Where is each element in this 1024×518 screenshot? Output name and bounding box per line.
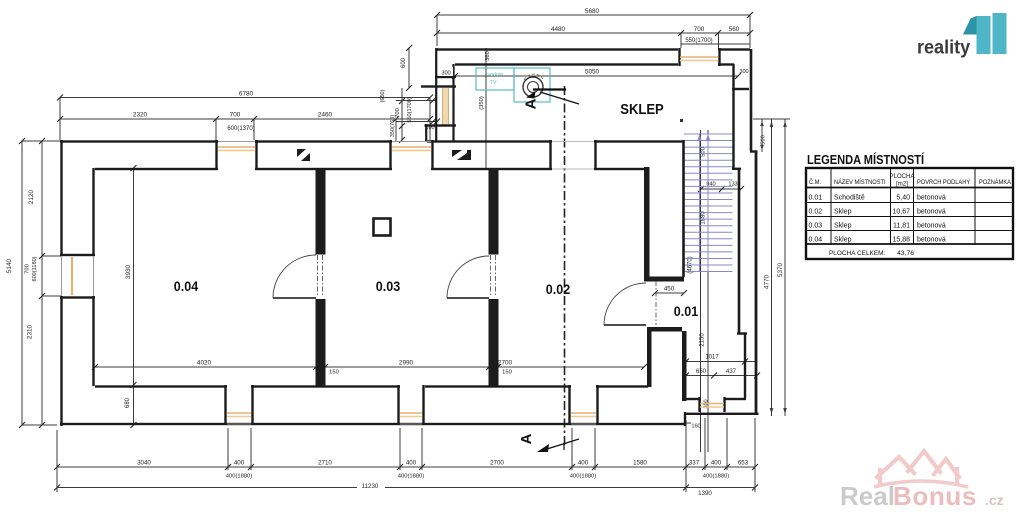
svg-text:0.02: 0.02 xyxy=(546,282,570,298)
svg-text:600: 600 xyxy=(401,57,407,68)
svg-text:500: 500 xyxy=(761,135,767,145)
svg-text:betonová: betonová xyxy=(917,209,946,216)
svg-text:betonová: betonová xyxy=(917,223,946,230)
svg-text:600(1180): 600(1180) xyxy=(32,256,38,281)
svg-text:5370: 5370 xyxy=(777,262,784,277)
svg-text:11,81: 11,81 xyxy=(893,223,910,230)
svg-text:5680: 5680 xyxy=(585,8,600,15)
svg-text:betonová: betonová xyxy=(917,195,946,202)
svg-text:5140: 5140 xyxy=(6,258,13,273)
svg-text:Sklep: Sklep xyxy=(834,209,852,216)
svg-text:Sklep: Sklep xyxy=(834,237,852,244)
svg-text:0.01: 0.01 xyxy=(674,304,698,320)
svg-text:650: 650 xyxy=(696,369,707,375)
svg-text:560: 560 xyxy=(729,26,740,33)
svg-text:4480: 4480 xyxy=(551,26,566,33)
svg-text:15,88: 15,88 xyxy=(892,237,910,244)
svg-text:700: 700 xyxy=(694,26,705,33)
svg-text:0.03: 0.03 xyxy=(809,223,823,230)
svg-text:0.04: 0.04 xyxy=(809,237,823,244)
svg-text:2710: 2710 xyxy=(318,460,332,467)
svg-text:A: A xyxy=(518,433,535,444)
svg-text:2150: 2150 xyxy=(700,333,706,347)
svg-text:0.02: 0.02 xyxy=(809,209,823,216)
svg-text:2120: 2120 xyxy=(28,189,35,204)
svg-text:Č.M.: Č.M. xyxy=(809,179,821,186)
svg-text:reality: reality xyxy=(917,36,971,58)
svg-text:PLOCHA: PLOCHA xyxy=(890,173,916,180)
svg-text:600(1370): 600(1370) xyxy=(227,126,254,132)
svg-text:450: 450 xyxy=(664,286,675,293)
svg-text:(650): (650) xyxy=(380,89,386,102)
svg-text:300: 300 xyxy=(739,69,748,75)
svg-text:3930: 3930 xyxy=(125,264,132,279)
svg-text:LEGENDA MÍSTNOSTÍ: LEGENDA MÍSTNOSTÍ xyxy=(807,151,925,167)
svg-text:Bonus: Bonus xyxy=(893,481,977,511)
svg-text:400: 400 xyxy=(711,460,722,467)
svg-text:2700: 2700 xyxy=(498,360,513,367)
svg-text:400: 400 xyxy=(406,460,417,467)
svg-text:43,76: 43,76 xyxy=(897,250,914,257)
svg-text:6780: 6780 xyxy=(239,91,254,98)
svg-text:10,67: 10,67 xyxy=(892,209,910,216)
svg-text:400(1880): 400(1880) xyxy=(570,474,596,480)
svg-text:653: 653 xyxy=(738,460,749,467)
svg-text:680: 680 xyxy=(125,397,131,408)
svg-text:150: 150 xyxy=(329,370,339,376)
svg-text:1390: 1390 xyxy=(698,490,712,497)
svg-text:0.04: 0.04 xyxy=(174,279,199,295)
svg-text:5050: 5050 xyxy=(585,69,600,76)
svg-text:437: 437 xyxy=(726,369,737,375)
svg-text:(350): (350) xyxy=(479,96,485,110)
svg-text:1017: 1017 xyxy=(705,355,719,361)
svg-text:11230: 11230 xyxy=(362,483,379,490)
svg-text:POVRCH PODLAHY: POVRCH PODLAHY xyxy=(917,180,970,186)
svg-text:Schodiště: Schodiště xyxy=(834,195,865,202)
svg-text:160: 160 xyxy=(691,424,700,430)
svg-text:700: 700 xyxy=(230,112,241,119)
svg-text:337: 337 xyxy=(689,460,700,467)
svg-text:2310: 2310 xyxy=(27,324,34,339)
svg-text:400(1880): 400(1880) xyxy=(398,474,424,480)
svg-text:POZNÁMKA: POZNÁMKA xyxy=(979,179,1011,186)
svg-text:350(760): 350(760) xyxy=(390,115,396,138)
svg-text:400(1880): 400(1880) xyxy=(703,474,729,480)
svg-text:2700: 2700 xyxy=(490,460,504,467)
svg-text:Real: Real xyxy=(840,481,895,511)
svg-text:0.03: 0.03 xyxy=(376,279,400,295)
svg-text:betonová: betonová xyxy=(917,237,946,244)
svg-text:400: 400 xyxy=(234,460,245,467)
svg-text:Sklep: Sklep xyxy=(834,223,852,230)
svg-text:150: 150 xyxy=(502,370,512,376)
svg-text:NÁZEV MÍSTNOSTI: NÁZEV MÍSTNOSTI xyxy=(834,179,886,186)
svg-text:500: 500 xyxy=(701,147,707,157)
svg-text:5,40: 5,40 xyxy=(896,195,910,202)
svg-text:360: 360 xyxy=(485,51,491,61)
svg-text:[m2]: [m2] xyxy=(896,180,908,187)
svg-text:3040: 3040 xyxy=(137,460,151,467)
svg-text:400: 400 xyxy=(578,460,589,467)
svg-text:0.01: 0.01 xyxy=(809,195,823,202)
svg-text:400(1880): 400(1880) xyxy=(226,474,252,480)
svg-text:700: 700 xyxy=(25,264,31,274)
svg-text:4020: 4020 xyxy=(197,360,212,367)
svg-text:2460: 2460 xyxy=(318,112,333,119)
svg-text:TV: TV xyxy=(490,80,497,86)
svg-text:vodom.: vodom. xyxy=(487,72,504,78)
svg-text:550(1700): 550(1700) xyxy=(685,38,712,44)
svg-text:4770: 4770 xyxy=(763,274,770,289)
svg-text:A: A xyxy=(523,98,540,109)
svg-text:SKLEP: SKLEP xyxy=(620,101,663,117)
svg-text:1580: 1580 xyxy=(633,460,647,467)
svg-text:.cz: .cz xyxy=(985,492,1004,508)
svg-text:300: 300 xyxy=(441,71,450,77)
svg-text:2320: 2320 xyxy=(133,112,148,119)
svg-text:PLOCHA CELKEM:: PLOCHA CELKEM: xyxy=(829,250,885,257)
svg-text:2990: 2990 xyxy=(399,360,414,367)
